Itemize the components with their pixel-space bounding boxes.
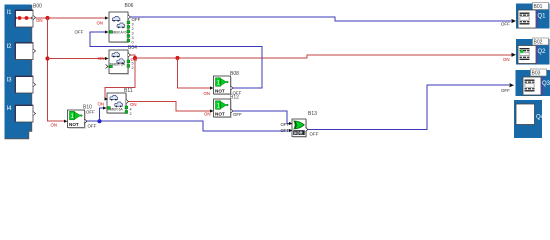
B08 output pin (231, 86, 234, 90)
B04 parameter pins (127, 60, 134, 70)
B10 output pin (85, 119, 88, 123)
block B08 NOT gate (214, 76, 232, 95)
svg-text:B02: B02 (534, 40, 543, 46)
block B04 timer (109, 50, 129, 74)
svg-text:XOR: XOR (294, 130, 303, 135)
arrow into Q1 (512, 19, 517, 23)
arrow into B13 input 1 (289, 122, 293, 125)
wire blue B12 output to B13 input 1 (233, 111, 290, 124)
arrow into B13 input 2 (289, 129, 293, 132)
B13 output pin (306, 128, 309, 132)
arrow into B10 input (64, 120, 68, 123)
B06 input 2 arrow (105, 30, 109, 33)
arrow into B04 input 1 (105, 57, 109, 60)
output Q3 block (516, 70, 550, 96)
block B10 NOT gate (68, 110, 86, 128)
output Q4 block (514, 100, 545, 138)
wire red B11 output to B12 input (129, 102, 211, 112)
junction dot I1 (45, 16, 49, 20)
B04 input 2 pin (106, 65, 109, 69)
wire red I1 to B06 input 1 (36, 17, 107, 19)
input I3 state box (15, 76, 33, 93)
B11 parameter pins (125, 106, 132, 116)
block B13 XOR gate (292, 119, 307, 137)
label B03 (531, 69, 547, 77)
block B12 NOT gate (214, 99, 232, 118)
svg-text:ON: ON (503, 57, 510, 62)
arrow into B12 input (210, 109, 214, 112)
svg-text:4: 4 (130, 108, 132, 112)
junction dot at B08 branch (175, 56, 179, 60)
wire red branch down to B11 input 1 (105, 58, 135, 99)
wire red B04 output to Q2 (131, 55, 512, 58)
B12 output pin (231, 109, 234, 113)
input I1 state box with closed switch (15, 10, 33, 27)
svg-text:ON: ON (204, 91, 211, 96)
output Q1 block (516, 4, 550, 29)
svg-text:B10: B10 (83, 105, 92, 111)
svg-text:3: 3 (132, 36, 134, 40)
wire blue B10 output to B13 input 2 (87, 121, 290, 131)
block B06 timer (109, 12, 129, 43)
input rail blue column (5, 5, 29, 139)
svg-text:ON: ON (36, 18, 43, 23)
arrow into B11 input 2 (103, 106, 107, 109)
output Q2 block (516, 39, 550, 65)
svg-text:B01: B01 (534, 4, 543, 10)
svg-text:OFF: OFF (233, 112, 242, 117)
svg-text:NOT: NOT (215, 111, 225, 116)
I2 output pin (33, 49, 36, 53)
svg-text:OFF: OFF (281, 122, 290, 127)
wire red vertical rail from I1 junction (48, 18, 65, 121)
wire blue branch up to B11 input 2 (100, 108, 104, 121)
B06 parameter pins (127, 21, 134, 45)
label B02 (533, 38, 549, 46)
arrow into B06 input 1 (105, 16, 109, 19)
I1 output pin (33, 16, 36, 20)
arrow into B08 input (210, 86, 214, 89)
junction dot B04 output (133, 56, 137, 60)
svg-text:3: 3 (132, 32, 134, 36)
input I2 state box (15, 43, 33, 60)
svg-text:2: 2 (132, 27, 134, 31)
svg-text:B12: B12 (230, 95, 239, 101)
svg-text:ON: ON (51, 123, 58, 128)
svg-text:B04: B04 (128, 45, 137, 51)
svg-text:OFF: OFF (501, 88, 510, 93)
svg-text:ON: ON (130, 102, 137, 107)
wire blue B06 output to Q1 (131, 17, 512, 21)
wire blue B13 output to Q3 (308, 85, 509, 129)
svg-text:Q2: Q2 (538, 49, 547, 55)
svg-text:I2: I2 (7, 44, 13, 50)
svg-text:ON: ON (98, 102, 105, 107)
svg-text:B08: B08 (230, 71, 239, 77)
svg-text:2: 2 (132, 66, 134, 70)
junction dot at B04 branch (45, 56, 49, 60)
B04 output pin (128, 53, 131, 57)
svg-text:ON: ON (204, 112, 211, 117)
input I4 state box (15, 105, 33, 122)
svg-text:Q1: Q1 (538, 14, 547, 20)
I3 output pin (33, 83, 36, 87)
label B01 (533, 3, 549, 11)
wire red branch down to B08 input (178, 58, 211, 88)
svg-text:B00: B00 (33, 4, 42, 10)
arrow into B11 input 1 (105, 97, 109, 100)
svg-text:OFF: OFF (281, 128, 290, 133)
svg-text:OFF: OFF (132, 17, 141, 22)
svg-text:B03: B03 (532, 71, 541, 77)
svg-text:B13: B13 (308, 111, 317, 117)
svg-text:0: 0 (132, 41, 134, 45)
svg-text:I1: I1 (7, 10, 13, 16)
block B11 timer (107, 93, 127, 114)
svg-text:ON: ON (97, 21, 104, 26)
svg-text:NOT: NOT (69, 122, 79, 127)
svg-text:OFF: OFF (75, 30, 84, 35)
svg-text:NOT: NOT (215, 88, 225, 93)
svg-text:5: 5 (132, 62, 134, 66)
svg-text:I3: I3 (7, 78, 13, 84)
B11 output pin (126, 100, 129, 104)
svg-text:B06: B06 (125, 3, 134, 9)
B06 output pin (128, 15, 131, 19)
svg-text:Q4: Q4 (536, 115, 545, 121)
svg-text:3: 3 (132, 23, 134, 27)
wire red branch to B04 input 1 (48, 58, 107, 60)
svg-text:2: 2 (130, 112, 132, 116)
wire blue B08 output feedback to B06 input 2 (90, 32, 262, 88)
arrow into Q2 (512, 53, 517, 57)
arrow into Q3 (510, 83, 515, 87)
svg-text:OFF: OFF (501, 22, 510, 27)
junction dot B10 output (97, 119, 101, 123)
svg-text:OFF: OFF (88, 124, 97, 129)
svg-text:Q3: Q3 (542, 81, 550, 87)
I4 output pin (33, 112, 36, 116)
svg-text:B11: B11 (124, 88, 133, 94)
svg-text:I4: I4 (7, 106, 13, 112)
svg-text:ON: ON (98, 56, 105, 61)
svg-text:OFF: OFF (310, 132, 319, 137)
